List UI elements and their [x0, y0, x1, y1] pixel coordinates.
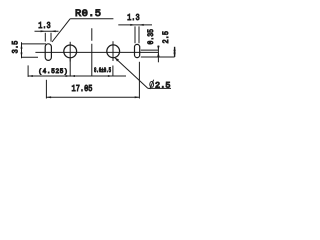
dim 17.05: arrow right — [135, 96, 140, 98]
dim 1.3 left: arrow left — [41, 30, 46, 32]
dim 1.3 left: extension line b — [50, 33, 52, 42]
leader R0.5 diagonal — [52, 19, 70, 42]
dim 1.3 left: dimension line — [35, 30, 59, 32]
dim 17.05: arrow left — [46, 96, 51, 98]
svg-text:(4.525): (4.525) — [38, 68, 67, 75]
svg-text:17.05: 17.05 — [72, 84, 93, 94]
leader phi2.5 arrowhead — [115, 58, 119, 62]
dim 17.05: left extension — [45, 80, 47, 99]
svg-text:3.5: 3.5 — [10, 41, 20, 54]
svg-text:2.5: 2.5 — [155, 80, 171, 90]
leader phi2.5 underline — [148, 87, 171, 89]
bottom dimension line (4.525)/8.0 — [28, 75, 126, 77]
dim 8.0: arrow right — [108, 75, 113, 77]
center axis between holes (dashed) — [91, 28, 93, 75]
svg-text:R0.5: R0.5 — [75, 8, 101, 20]
svg-text:1.3: 1.3 — [127, 13, 140, 23]
dim (4.525): left extension line — [27, 65, 29, 77]
dim 3.5: arrow bottom — [21, 53, 23, 58]
dim 1.3 right: dimension line — [118, 24, 152, 26]
dim 8.0: right extension under circle C2 — [112, 66, 114, 76]
dim 2.5: arrow top — [173, 47, 175, 51]
dim 2.5: dimension line vertical — [174, 47, 176, 57]
dim 0.35: arrow below — [157, 52, 159, 56]
slot S1 (left stadium slot) — [45, 44, 51, 61]
centerline — [35, 51, 158, 53]
dim 3.5: top extension — [22, 43, 47, 45]
leader R0.5 underline — [70, 18, 113, 20]
dim 1.3 right: arrow right — [139, 24, 144, 26]
svg-text:2.5: 2.5 — [162, 31, 171, 44]
hole C1 (left circle) — [64, 45, 77, 58]
dim 1.3 right: extension line a — [134, 26, 136, 43]
label phi2.5 — [150, 82, 154, 88]
leader phi2.5 diagonal — [115, 58, 148, 89]
dim 0.35: ext top line — [141, 49, 159, 51]
extension line under circle C1 — [69, 59, 71, 77]
dim 1.3 right: arrow left — [130, 24, 135, 26]
dim 0.35: dimension line vertical — [157, 46, 159, 63]
dim 1.3 left: extension line a — [44, 33, 46, 42]
dim 17.05: right extension — [138, 62, 140, 99]
dim 2.5: arrow bottom — [173, 53, 175, 57]
centerline C1 vertical — [69, 42, 71, 62]
svg-text:8.0±0.5: 8.0±0.5 — [94, 67, 111, 74]
dim (4.525)/8.0 arrows at 70.3 — [66, 75, 71, 77]
dim 3.5: vertical dimension line — [21, 42, 23, 58]
svg-text:1.3: 1.3 — [38, 21, 51, 31]
hole C2 (right circle) — [107, 45, 120, 58]
dim 2.5: bottom extension line — [141, 56, 175, 58]
dim 3.5: arrow top — [21, 44, 23, 49]
centerline C2 vertical — [112, 41, 114, 61]
slot S2 (right stadium slot) — [135, 44, 140, 57]
dim (4.525): arrow left — [28, 75, 33, 77]
dim 1.3 right: extension line b — [138, 26, 140, 43]
dim 3.5: bottom extension — [22, 56, 39, 58]
dim 1.3 left: arrow right — [51, 30, 56, 32]
dim 0.35: arrow above — [157, 46, 159, 50]
svg-text:0.35: 0.35 — [147, 29, 156, 45]
dim 17.05: dimension line — [46, 96, 139, 98]
